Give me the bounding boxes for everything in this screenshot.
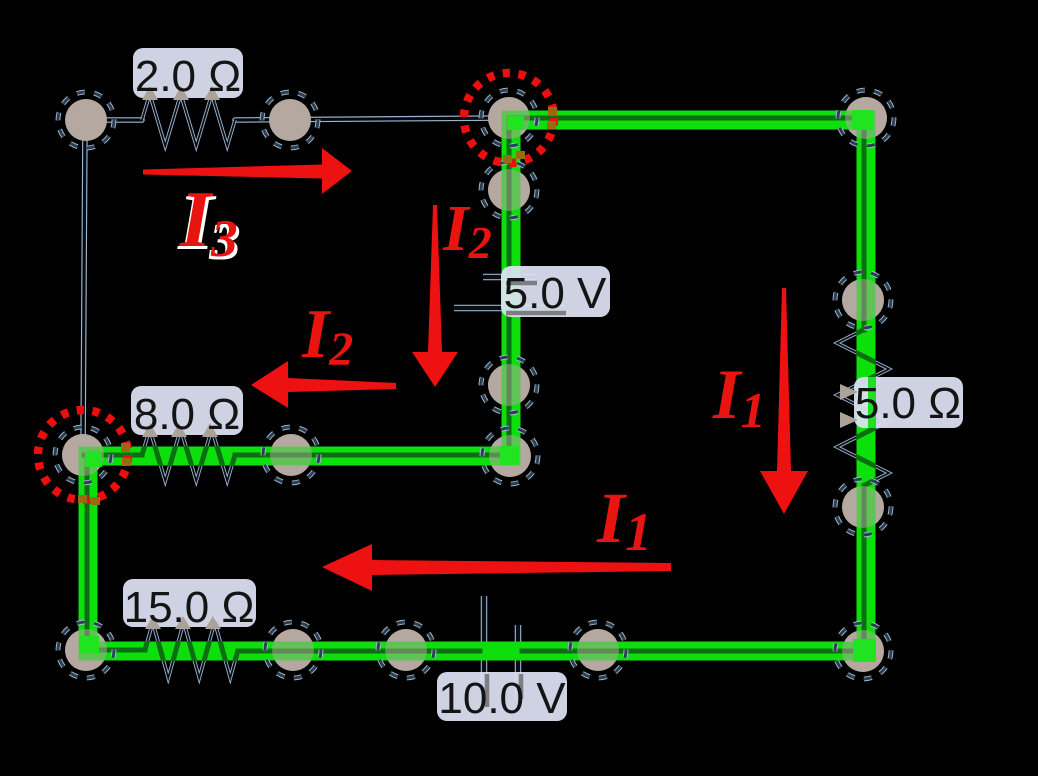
svg-text:8.0 Ω: 8.0 Ω: [134, 390, 240, 439]
svg-text:I1: I1: [712, 356, 766, 438]
svg-text:I3: I3: [179, 176, 238, 268]
svg-text:2.0 Ω: 2.0 Ω: [135, 52, 241, 101]
svg-text:5.0 Ω: 5.0 Ω: [855, 379, 961, 428]
svg-text:15.0 Ω: 15.0 Ω: [124, 583, 255, 632]
svg-text:5.0 V: 5.0 V: [504, 269, 607, 318]
svg-text:I1: I1: [596, 478, 652, 562]
svg-text:I2: I2: [301, 296, 353, 376]
svg-text:10.0 V: 10.0 V: [438, 674, 566, 723]
